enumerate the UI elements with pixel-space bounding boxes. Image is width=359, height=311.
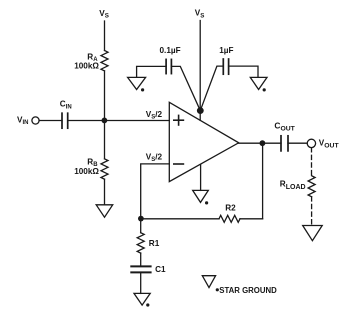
node: feedback node: [138, 216, 144, 222]
node: supply node on op-amp: [197, 107, 204, 114]
wire CIN to input node: [68, 120, 105, 122]
wire RB to ground: [104, 179, 106, 205]
wire C1 to ground: [140, 273, 142, 293]
wire feedback row right segment: [240, 218, 263, 220]
wire (dashed) RLOAD to ground: [311, 197, 313, 226]
net VS (left supply label): [99, 9, 109, 20]
wire VS to RA: [104, 21, 106, 51]
node: output node: [260, 140, 266, 146]
wire input node to RB: [104, 121, 106, 159]
ground (op-amp, star): [193, 190, 209, 202]
svg-text:R2: R2: [225, 203, 236, 212]
capacitor COUT: [281, 136, 288, 151]
capacitor 1uF: [223, 59, 228, 74]
terminal VOUT: [307, 139, 315, 147]
resistor RA: [101, 51, 108, 71]
wire op-amp output to COUT: [239, 142, 281, 144]
wire 1uF right to ground: [229, 66, 258, 77]
wire input node to op-amp + input: [105, 120, 170, 122]
wire R1 to C1: [140, 253, 142, 265]
svg-text:STAR GROUND: STAR GROUND: [219, 286, 277, 295]
wire R2 to feedback node: [141, 218, 219, 220]
ground (C1, star): [134, 293, 150, 305]
svg-text:1µF: 1µF: [219, 46, 233, 55]
wire COUT to VOUT: [288, 142, 307, 144]
wire RA to input node: [104, 71, 106, 121]
node label VS/2 (bottom): [146, 152, 163, 163]
ground (0.1uF, star): [128, 77, 146, 89]
svg-text:C1: C1: [155, 265, 166, 274]
svg-text:100kΩ: 100kΩ: [74, 62, 99, 71]
wire 1uF left to supply node: [200, 66, 223, 111]
resistor R2: [219, 215, 240, 222]
resistor R1: [137, 233, 144, 253]
resistor RLOAD: [308, 176, 315, 197]
wire feedback node to R1: [140, 219, 142, 233]
terminal VIN: [17, 115, 28, 126]
wire (dashed) VOUT to RLOAD: [311, 148, 313, 176]
svg-text:R1: R1: [149, 239, 160, 248]
resistor RB: [101, 159, 108, 179]
ground (load): [303, 226, 323, 241]
capacitor C1: [131, 266, 150, 272]
ground (1uF, star): [250, 77, 267, 89]
wire feedback node to op-amp - input: [141, 164, 170, 219]
capacitor CIN: [62, 113, 68, 128]
node: input bias node: [102, 118, 108, 124]
ground (below RB): [96, 205, 113, 217]
wire VS to supply node and op-amp top: [199, 21, 201, 121]
svg-text:100kΩ: 100kΩ: [74, 167, 99, 176]
legend: star ground symbol: [202, 276, 215, 288]
wire output node to feedback row: [262, 143, 264, 219]
capacitor 0.1uF: [166, 59, 171, 73]
svg-text:0.1µF: 0.1µF: [160, 46, 181, 55]
wire 0.1uF left to ground: [137, 66, 167, 77]
wire op-amp to ground: [200, 165, 202, 191]
op-amp U1: [169, 102, 238, 181]
net VS (middle supply label): [195, 8, 205, 19]
wire VIN to CIN: [39, 120, 62, 122]
node label VS/2 (top): [146, 110, 163, 121]
wire 0.1uF right to supply node: [171, 66, 200, 110]
